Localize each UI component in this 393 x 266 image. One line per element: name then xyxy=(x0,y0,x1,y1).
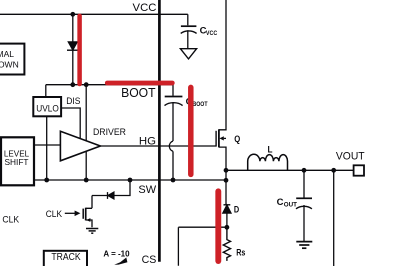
junction dot Q source/L xyxy=(224,168,229,173)
wire Q source to SW node xyxy=(219,147,226,170)
wire HG xyxy=(100,145,215,147)
svg-text:TRACK: TRACK xyxy=(51,252,81,263)
wire SW xyxy=(34,179,226,181)
svg-text:BOOT: BOOT xyxy=(193,101,208,108)
svg-text:OUT: OUT xyxy=(284,202,297,209)
svg-text:VCC: VCC xyxy=(206,30,218,37)
diode D catch diode xyxy=(223,205,231,213)
svg-text:Q: Q xyxy=(234,134,240,144)
svg-text:SHUTDOWN: SHUTDOWN xyxy=(0,59,19,69)
svg-text:UVLO: UVLO xyxy=(36,103,59,114)
wire internal diode branch xyxy=(72,14,74,84)
highlight marker 3 (red, over C_BOOT) xyxy=(188,87,194,174)
TRACK box xyxy=(44,251,87,266)
svg-text:SW: SW xyxy=(138,184,156,196)
UVLO box U2 xyxy=(33,97,61,116)
wire SW to clamp diode xyxy=(92,180,130,196)
junction dot BOOT/driver riser xyxy=(84,82,89,87)
svg-text:SHIFT: SHIFT xyxy=(5,157,29,167)
junction dot SW/D branch xyxy=(224,178,229,183)
ground (CLK fet) xyxy=(86,229,98,234)
junction dot clamp branch/SW xyxy=(128,178,133,183)
junction dot C_BOOT/SW xyxy=(171,178,176,183)
svg-text:VOUT: VOUT xyxy=(336,151,365,163)
resistor Rs xyxy=(223,227,230,261)
wire DIS xyxy=(61,108,80,139)
transistor Q xyxy=(216,129,226,147)
junction dot UVLO/SW xyxy=(44,178,49,183)
svg-text:A = -10: A = -10 xyxy=(103,249,130,258)
op-amp U1 driver triangle xyxy=(60,127,126,161)
capacitor C_OUT xyxy=(296,170,312,241)
svg-text:VCC: VCC xyxy=(133,2,157,14)
junction dot VCC/diode xyxy=(70,12,75,17)
junction dot VOUT branch xyxy=(331,168,336,173)
amp A1 apex (cropped) xyxy=(114,258,127,265)
junction dot C_OUT tap xyxy=(302,168,307,173)
capacitor C_VCC xyxy=(181,14,197,48)
junction dot D/Rs/CS xyxy=(225,225,230,230)
svg-text:THERMAL: THERMAL xyxy=(0,49,14,59)
svg-text:DRIVER: DRIVER xyxy=(93,127,126,137)
ground (C_OUT) xyxy=(296,242,312,249)
svg-text:Rs: Rs xyxy=(236,248,245,258)
svg-text:CLK: CLK xyxy=(46,209,63,220)
highlight marker 4 (red, over D and Rs) xyxy=(215,191,221,261)
wire UVLO to SW xyxy=(46,116,48,180)
svg-text:D: D xyxy=(234,203,239,214)
svg-text:CLK: CLK xyxy=(2,214,19,225)
diode D1 internal boot diode xyxy=(67,42,79,50)
wire VOUT branch down xyxy=(333,170,335,266)
svg-text:C: C xyxy=(277,197,284,208)
junction dot driver/SW xyxy=(84,178,89,183)
wire BOOT rail to driver and SW xyxy=(85,85,87,180)
wire output xyxy=(226,169,354,171)
junction dot diode/BOOT xyxy=(70,82,75,87)
inductor L xyxy=(248,154,288,170)
wire BOOT xyxy=(46,84,173,86)
wire CLK fet drain riser xyxy=(91,196,93,209)
transistor M1 CLK fet xyxy=(83,208,92,228)
wire SW node down to diode D xyxy=(225,170,227,204)
diode D2 internal clamp diode xyxy=(108,192,114,199)
wire UVLO top riser xyxy=(45,85,47,98)
wire diode D to CS xyxy=(226,213,228,228)
wire CS sense xyxy=(178,227,227,266)
wire LEVEL SHIFT to driver xyxy=(34,144,60,146)
svg-text:BOOT: BOOT xyxy=(121,86,156,100)
thermal shutdown box xyxy=(0,44,24,75)
wire Q drain to VIN (top) xyxy=(219,0,226,130)
capacitor C_BOOT xyxy=(165,85,183,180)
ground (C_VCC) open triangle xyxy=(180,49,196,59)
wire VCC rail xyxy=(0,13,188,15)
svg-text:L: L xyxy=(268,143,273,154)
terminal VOUT xyxy=(354,165,364,175)
svg-text:CS: CS xyxy=(142,254,157,266)
highlight marker 1 (red, over boot diode branch) xyxy=(77,16,82,84)
svg-text:HG: HG xyxy=(139,136,156,148)
highlight marker 2 (red, over BOOT trace) xyxy=(107,81,172,86)
svg-text:DIS: DIS xyxy=(66,96,80,107)
IC boundary xyxy=(158,0,161,262)
LEVEL SHIFT box xyxy=(1,137,34,185)
